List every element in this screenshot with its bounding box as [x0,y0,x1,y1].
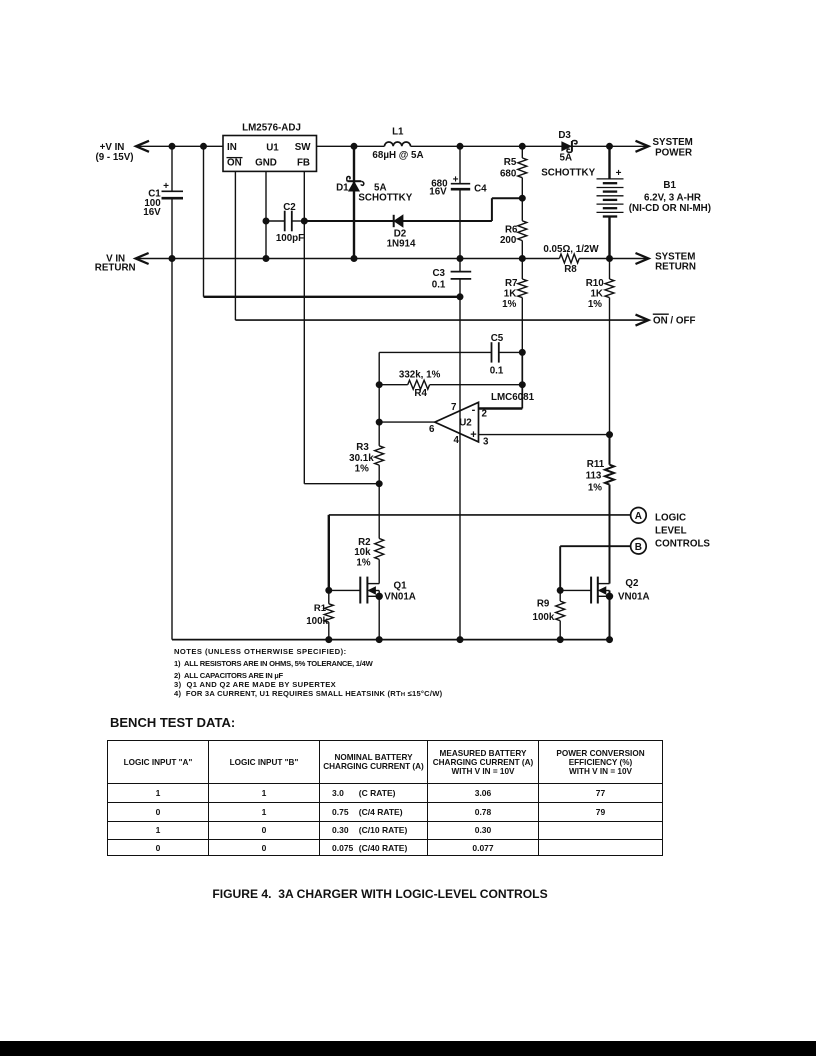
diode D2 1N914 [393,215,395,227]
svg-text:SYSTEM: SYSTEM [653,137,693,148]
node SYSTEM RETURN terminal [636,253,649,264]
op-amp U2 LMC6081 [435,402,479,442]
bench test data table [107,740,663,856]
bottom black bar [0,1041,816,1056]
svg-text:L1: L1 [392,126,404,137]
svg-text:0.1: 0.1 [490,366,504,377]
svg-text:R7: R7 [505,278,518,289]
svg-text:(9 - 15V): (9 - 15V) [95,152,133,163]
svg-text:3: 3 [483,436,489,447]
svg-text:+: + [470,429,476,441]
svg-text:D1: D1 [336,183,349,194]
svg-text:1%: 1% [356,558,370,569]
svg-text:C5: C5 [491,333,504,344]
resistor R1 100k [328,590,330,603]
svg-text:0.05Ω, 1/2W: 0.05Ω, 1/2W [543,244,599,255]
wire bottom ground rail [171,259,173,640]
bench test data heading [110,715,235,730]
svg-text:GND: GND [255,158,277,169]
svg-text:D3: D3 [558,130,571,141]
IC U1 LM2576-ADJ box [223,136,317,172]
svg-text:5A: 5A [560,152,573,163]
wire D2 net [304,220,394,222]
wire ON pin down and ON/OFF rail [234,171,236,320]
svg-text:1%: 1% [502,299,516,310]
svg-text:B1: B1 [663,180,676,191]
op-amp supply node dots [169,143,175,149]
wire R7/C5/R4 node to pin2 [521,352,523,408]
node A circle [631,508,647,524]
resistor R3 30.1k 1% [378,385,380,446]
svg-text:+: + [616,168,622,179]
notes block [174,648,347,656]
battery B1 [608,146,610,179]
svg-text:CONTROLS: CONTROLS [655,538,710,549]
wire C5 left leg down [378,352,380,384]
capacitor C5 0.1 [379,351,491,353]
svg-text:ON: ON [227,158,242,169]
wire left V+ branch down to opamp supply [203,146,205,296]
svg-text:SCHOTTKY: SCHOTTKY [541,167,595,178]
svg-text:-: - [472,404,476,416]
capacitor C1 [171,146,173,191]
figure caption [0,887,760,901]
svg-text:30.1k: 30.1k [349,453,374,464]
svg-text:C3: C3 [432,268,445,279]
svg-text:4: 4 [454,435,460,446]
resistor R7 1K 1% [521,259,523,280]
svg-text:LM2576-ADJ: LM2576-ADJ [242,123,301,134]
svg-text:0.1: 0.1 [432,279,446,290]
svg-text:1N914: 1N914 [387,238,416,249]
svg-text:10k: 10k [354,547,371,558]
wire opamp output pin6 [379,421,435,423]
svg-text:C2: C2 [283,202,296,213]
capacitor C3 0.1 [459,259,461,272]
capacitor C4 680uF [459,146,461,183]
resistor R11 113 1% [609,435,611,465]
svg-text:332k, 1%: 332k, 1% [399,369,441,380]
svg-text:LMC6081: LMC6081 [491,392,535,403]
diode D1 5A schottky [353,146,355,258]
svg-text:R4: R4 [414,388,427,399]
svg-text:Q1: Q1 [394,580,408,591]
svg-text:1%: 1% [588,482,602,493]
svg-text:100pF: 100pF [276,233,304,244]
resistor R8 0.05 ohm [559,254,579,263]
svg-text:LEVEL: LEVEL [655,525,687,536]
capacitor C2 [266,220,285,222]
node SYSTEM POWER terminal [636,141,649,152]
svg-text:680: 680 [500,169,517,180]
svg-text:IN: IN [227,142,237,153]
svg-text:+: + [163,181,169,192]
inductor L1 [385,142,411,146]
transistor Q1 VN01A [329,589,361,591]
svg-text:VN01A: VN01A [618,591,650,602]
svg-text:(NI-CD OR NI-MH): (NI-CD OR NI-MH) [629,203,711,214]
svg-text:R10: R10 [586,278,605,289]
svg-text:Q2: Q2 [625,578,639,589]
transistor Q2 VN01A [560,589,591,591]
svg-text:RETURN: RETURN [95,263,136,274]
svg-text:1K: 1K [504,288,517,299]
svg-text:100k: 100k [533,612,555,623]
svg-text:R3: R3 [356,442,369,453]
svg-text:RETURN: RETURN [655,262,696,273]
svg-text:SCHOTTKY: SCHOTTKY [358,192,412,203]
svg-text:R8: R8 [564,264,577,275]
wire SW output rail [317,145,385,147]
node ON/OFF terminal [636,315,649,326]
resistor R6 200 [521,198,523,221]
svg-text:68µH @ 5A: 68µH @ 5A [372,150,423,161]
wire opamp pin2 [479,407,523,409]
svg-text:A: A [635,511,642,522]
node V IN RETURN terminal [136,253,149,264]
svg-text:C4: C4 [474,184,487,195]
svg-text:R5: R5 [504,157,517,168]
wire GND pin down [265,171,267,258]
svg-text:R11: R11 [587,459,605,470]
wire FB pin down [303,171,305,483]
wire opamp pin3 [479,434,610,436]
svg-text:R9: R9 [537,599,550,610]
wire logic A net [329,514,631,516]
wire V RETURN rail [136,258,560,260]
resistor R9 100k [559,590,561,601]
resistor R4 332k [379,384,408,386]
svg-text:16V: 16V [143,207,161,218]
node B circle [631,538,647,554]
svg-text:R1: R1 [314,603,327,614]
svg-text:7: 7 [451,402,457,413]
svg-text:1%: 1% [588,299,602,310]
wire opamp supply horizontal [204,296,461,298]
svg-text:6: 6 [429,424,435,435]
resistor R10 1K 1% [609,259,611,280]
svg-text:R6: R6 [505,224,518,235]
svg-text:U1: U1 [266,143,279,154]
svg-text:2: 2 [482,408,488,419]
svg-text:100k: 100k [306,616,328,627]
svg-text:+: + [453,174,459,185]
resistor R2 10k 1% [378,484,380,539]
svg-text:VN01A: VN01A [384,591,416,602]
resistor R5 680 [521,146,523,158]
svg-text:16V: 16V [429,186,447,197]
svg-text:U2: U2 [459,418,472,429]
svg-text:FB: FB [297,158,310,169]
svg-text:113: 113 [586,471,602,482]
svg-text:SW: SW [295,142,312,153]
svg-text:B: B [635,542,642,553]
wire top +VIN rail [136,145,223,147]
node +V IN terminal [136,141,149,152]
wire opamp V+ pin7 / V- pin4 column [459,297,461,640]
wire logic B net [560,545,630,547]
svg-text:ON / OFF: ON / OFF [653,316,695,327]
svg-text:POWER: POWER [655,147,692,158]
svg-text:LOGIC: LOGIC [655,512,686,523]
diode D3 5A schottky [562,142,571,150]
svg-text:1K: 1K [590,288,603,299]
svg-text:1%: 1% [355,464,369,475]
svg-text:200: 200 [500,235,517,246]
